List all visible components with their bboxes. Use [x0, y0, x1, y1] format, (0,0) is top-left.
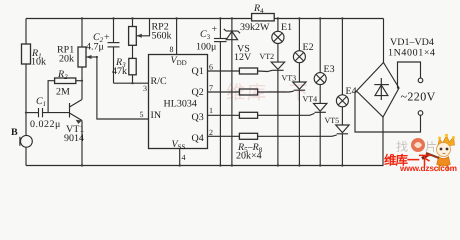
svg-text:B: B [11, 127, 18, 138]
resistor R8 row Q4 [208, 133, 337, 139]
svg-text:4: 4 [182, 153, 186, 162]
mascot crown [438, 136, 455, 148]
svg-text:2M: 2M [56, 87, 70, 98]
potentiometer RP2 [129, 19, 172, 46]
pin 8 VDD wire [176, 19, 178, 55]
wire top +V bus right of R4 [274, 18, 384, 20]
capacitor C2 [86, 19, 120, 84]
resistor R6 row Q2 [208, 89, 294, 95]
svg-text:7: 7 [209, 84, 213, 93]
bridge rectifier VD1-VD4 [357, 19, 436, 166]
svg-text:2: 2 [209, 128, 213, 137]
mascot legs [439, 165, 449, 171]
svg-text:4.7μ: 4.7μ [86, 42, 104, 53]
svg-text:10k: 10k [31, 57, 46, 68]
svg-text:8: 8 [170, 45, 174, 54]
resistor R4 [240, 3, 274, 33]
svg-text:E1: E1 [281, 22, 292, 33]
svg-text:C3: C3 [200, 29, 211, 41]
svg-text:560k: 560k [152, 31, 172, 42]
wire bridge AC right to terminal [398, 62, 421, 88]
svg-text:www.dzsc.com: www.dzsc.com [399, 163, 457, 172]
resistor R5 row Q1 [208, 68, 273, 74]
svg-text:20k: 20k [59, 54, 74, 65]
resistor R3 [112, 45, 136, 83]
svg-text:1N4001×4: 1N4001×4 [388, 48, 436, 59]
thyristor VT2 [260, 44, 285, 166]
svg-text:VDD: VDD [171, 55, 187, 67]
svg-text:VSS: VSS [172, 139, 186, 151]
mascot arm brush [426, 153, 439, 158]
wire C2 to R/C pin 3 [114, 82, 149, 84]
svg-text:9014: 9014 [64, 133, 84, 144]
transistor VT1 [64, 67, 84, 166]
svg-text:1: 1 [209, 106, 213, 115]
svg-text:3: 3 [143, 84, 147, 93]
wire bottom ground bus [26, 165, 384, 167]
svg-text:HL3034: HL3034 [164, 99, 197, 110]
svg-text:Q1: Q1 [192, 66, 204, 77]
svg-text:Q3: Q3 [192, 112, 204, 123]
capacitor C3 [196, 19, 227, 166]
watermark logo bottom right [384, 134, 457, 173]
thyristor VT3 [282, 63, 307, 166]
thyristor VT4 [303, 85, 327, 166]
svg-text:IN: IN [151, 110, 162, 121]
resistor R7 row Q3 [208, 112, 315, 118]
svg-text:0.022μ: 0.022μ [30, 119, 61, 130]
microphone B [11, 113, 32, 166]
svg-text:Q4: Q4 [192, 133, 204, 144]
svg-text:R/C: R/C [151, 76, 167, 87]
svg-text:E3: E3 [324, 64, 335, 75]
svg-text:VD1–VD4: VD1–VD4 [390, 37, 434, 48]
lamp E4 [336, 19, 356, 107]
wire terminal lower to bridge AC left [355, 91, 421, 132]
lamp E2 [293, 19, 313, 63]
wire RP1 wiper to IN [97, 57, 149, 119]
thyristor VT5 [325, 107, 350, 166]
svg-text:VT5: VT5 [325, 116, 340, 125]
svg-text:Q2: Q2 [192, 87, 204, 98]
potentiometer RP1 [57, 19, 97, 68]
pin 4 VSS wire [179, 149, 181, 166]
svg-text:39k2W: 39k2W [240, 22, 270, 33]
svg-text:6: 6 [209, 63, 213, 72]
svg-text:E2: E2 [303, 42, 314, 53]
op-amp U1 IC HL3034 [149, 55, 208, 152]
svg-text:VT4: VT4 [303, 95, 318, 104]
svg-text:VT3: VT3 [282, 74, 297, 83]
lamp E1 [272, 19, 292, 44]
mascot body [437, 157, 451, 167]
svg-text:~220V: ~220V [401, 90, 436, 104]
svg-text:+: + [104, 32, 110, 43]
svg-text:片: 片 [425, 140, 437, 154]
svg-text:5: 5 [140, 110, 144, 119]
svg-text:R4: R4 [253, 3, 264, 15]
zener diode VS [224, 19, 252, 166]
mascot face [437, 143, 451, 157]
svg-text:20k×4: 20k×4 [236, 151, 262, 162]
wire top +V bus left of R4 [26, 18, 252, 20]
terminal upper [418, 78, 423, 83]
lamp E3 [314, 19, 334, 85]
svg-text:12V: 12V [234, 52, 252, 63]
svg-text:维库一下: 维库一下 [226, 83, 310, 104]
terminal lower [418, 111, 423, 116]
svg-text:+: + [212, 24, 218, 35]
svg-text:R2: R2 [57, 69, 68, 81]
svg-text:47k: 47k [112, 66, 127, 77]
svg-text:找: 找 [396, 140, 408, 154]
resistor R1 [22, 19, 47, 113]
svg-text:VT2: VT2 [260, 52, 275, 61]
resistor R2 [48, 69, 82, 113]
capacitor C1 [26, 96, 70, 130]
svg-text:100μ: 100μ [196, 42, 216, 53]
svg-text:C1: C1 [36, 96, 46, 108]
